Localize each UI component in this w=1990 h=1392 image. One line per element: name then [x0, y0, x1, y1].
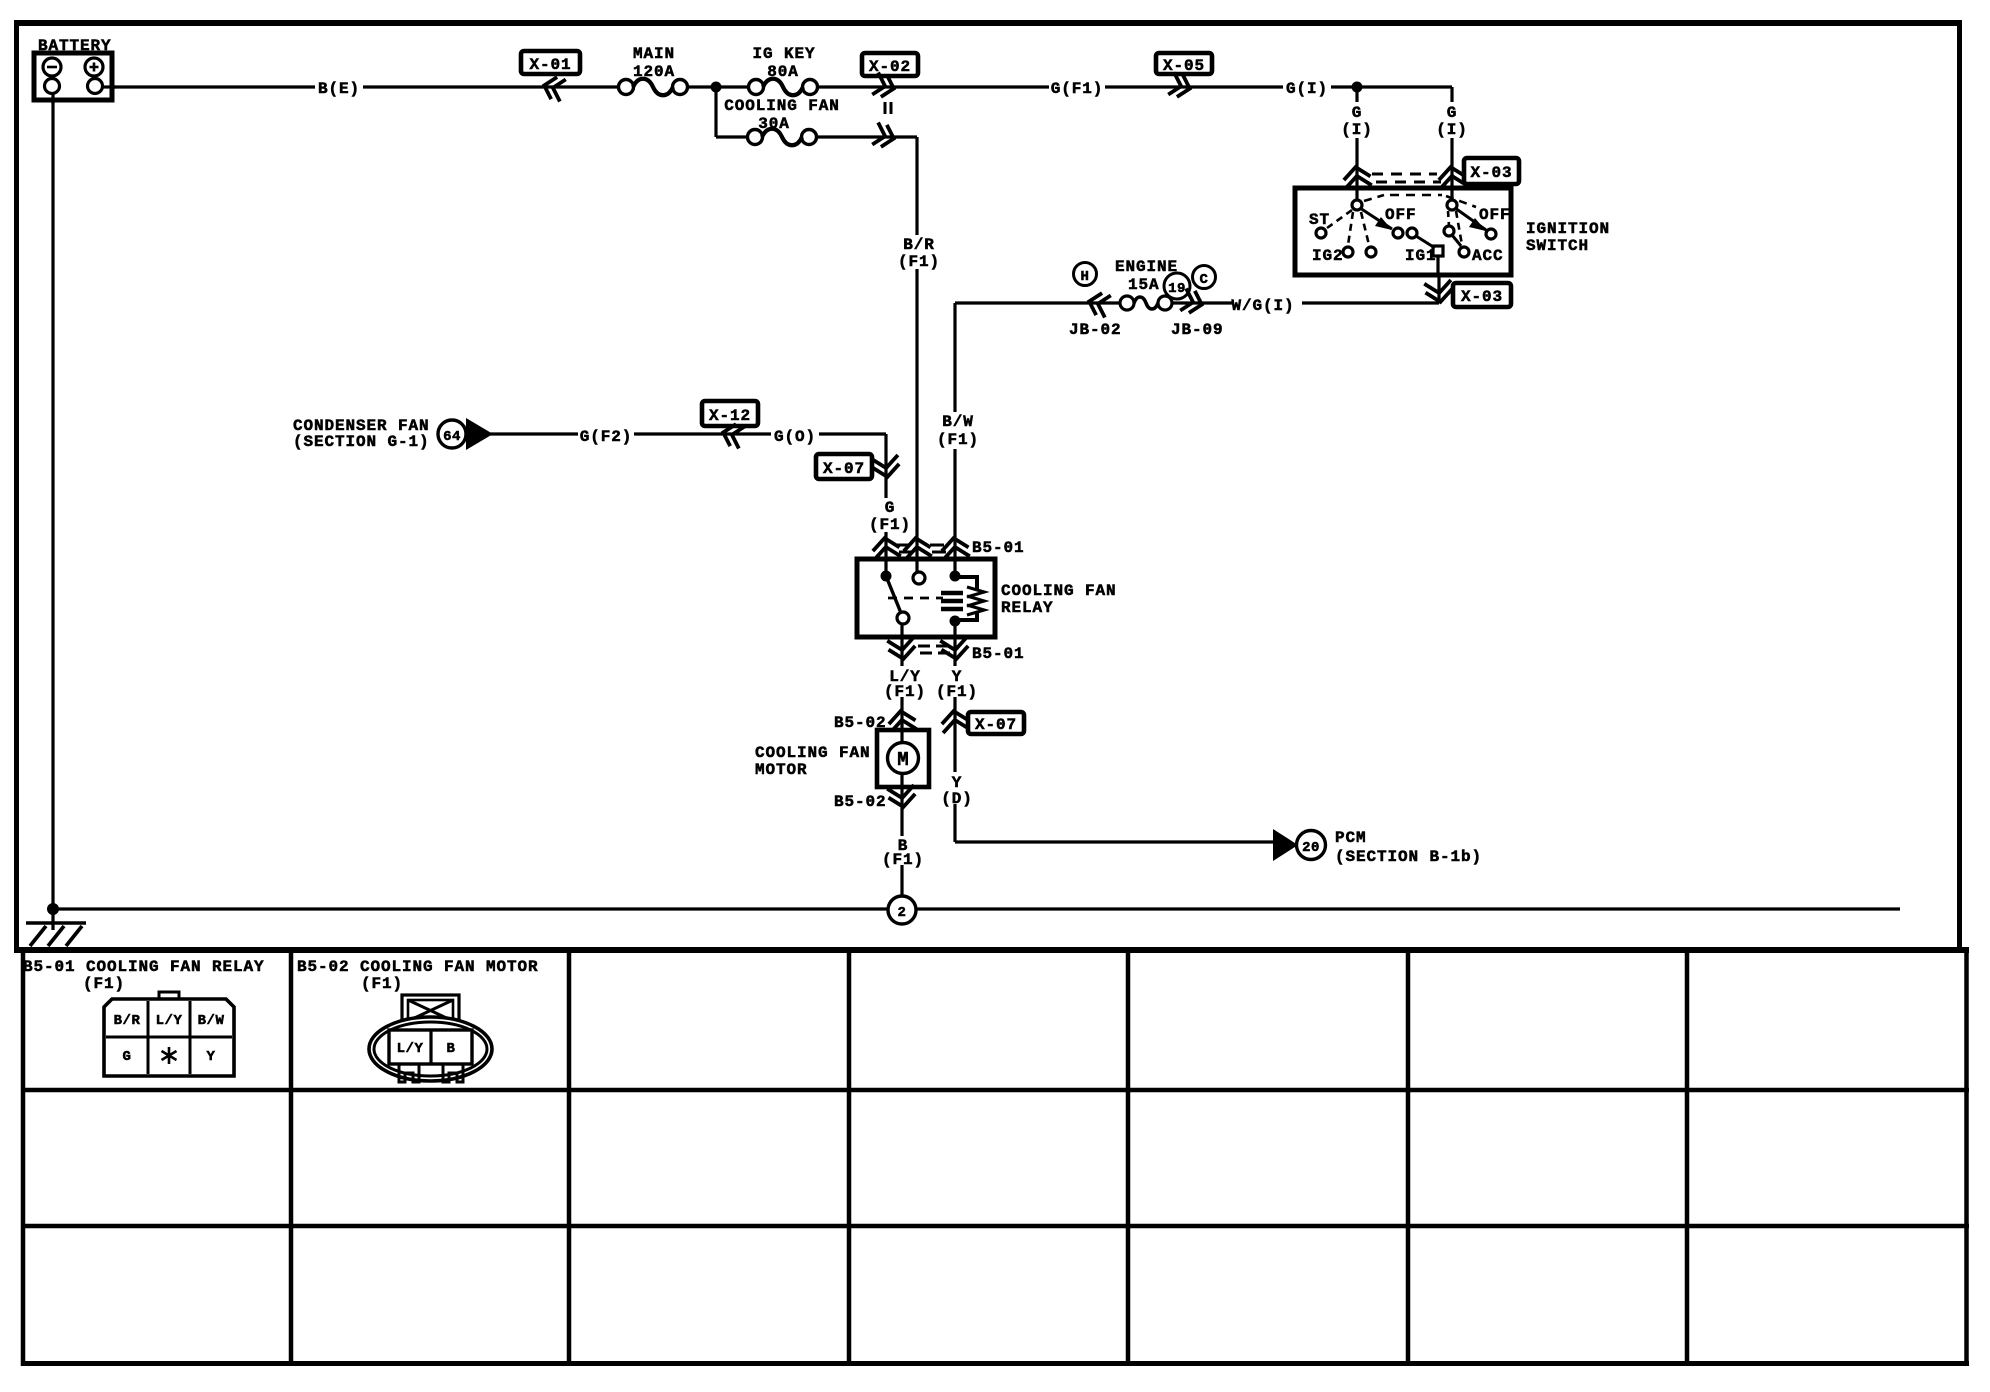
connector B5-02 top chevron: [834, 709, 915, 732]
svg-text:X-03: X-03: [1461, 288, 1503, 306]
svg-text:MAIN: MAIN: [633, 45, 675, 63]
wire label B(E): [315, 77, 363, 98]
wire B(E) battery to main fuse: [100, 85, 618, 88]
svg-text:B5-01: B5-01: [972, 539, 1025, 557]
svg-text:B: B: [447, 1041, 456, 1057]
svg-text:(F1): (F1): [898, 253, 940, 271]
contact ACC: [1459, 247, 1469, 257]
svg-text:G: G: [885, 499, 896, 517]
connector X-07 right chevron: [942, 709, 1024, 734]
svg-text:(F1): (F1): [361, 975, 403, 993]
right dashed fan: [1448, 211, 1449, 226]
svg-text:G(O): G(O): [774, 428, 816, 446]
wire label L/Y (F1): [884, 666, 926, 701]
connector JB-09 chevron: [1182, 290, 1205, 314]
svg-text:G(F1): G(F1): [1051, 80, 1104, 98]
svg-text:M: M: [897, 749, 908, 771]
wire label G(F2): [578, 425, 634, 446]
connector X-12: [702, 401, 758, 447]
svg-text:19: 19: [1168, 281, 1186, 297]
wire battery ground drop: [51, 93, 54, 909]
svg-text:IG1: IG1: [1405, 247, 1437, 265]
svg-text:OFF: OFF: [1479, 206, 1511, 224]
svg-text:B/W: B/W: [198, 1013, 225, 1029]
node junction dot at main fuse split: [711, 82, 722, 93]
right common contact: [1447, 200, 1457, 210]
wire X-02 to ignition, corner down at 1452: [818, 87, 1452, 188]
fuse ENGINE 15A: [1120, 296, 1172, 310]
svg-text:(F1): (F1): [83, 975, 125, 993]
table label B5-01 COOLING FAN RELAY (F1): [23, 958, 265, 993]
connector X-03 top (chevrons into ignition switch): [1344, 158, 1519, 188]
svg-text:15A: 15A: [1128, 276, 1160, 294]
wire cooling fan fuse branch: [716, 87, 917, 559]
svg-text:COOLING FAN: COOLING FAN: [755, 744, 871, 762]
svg-text:W/G(I): W/G(I): [1231, 297, 1294, 315]
connector X-01: [521, 51, 580, 100]
svg-text:20: 20: [1302, 840, 1320, 856]
svg-text:(SECTION G-1): (SECTION G-1): [293, 433, 430, 451]
wire label G (I) left ignition: [1341, 102, 1373, 139]
node junction dot G(I) split: [1352, 82, 1363, 93]
table label B5-02 COOLING FAN MOTOR (F1): [297, 958, 539, 993]
svg-text:B(E): B(E): [318, 80, 360, 98]
label COOLING FAN RELAY: [1001, 582, 1117, 617]
svg-text:X-03: X-03: [1470, 164, 1512, 182]
wire label G(I): [1283, 77, 1331, 98]
wire label G (I) right ignition: [1436, 102, 1468, 139]
svg-text:X-07: X-07: [823, 460, 865, 478]
svg-text:G: G: [1447, 104, 1458, 122]
left common contact: [1352, 200, 1362, 210]
connector X-07 left: [816, 454, 899, 479]
ground symbol: [26, 909, 86, 946]
svg-text:G(I): G(I): [1286, 80, 1328, 98]
svg-text:B/R: B/R: [114, 1013, 141, 1029]
frame border: [14, 20, 1962, 950]
svg-text:(F1): (F1): [936, 683, 978, 701]
connector B5-02 bottom chevron: [834, 786, 915, 811]
svg-text:MOTOR: MOTOR: [755, 761, 808, 779]
battery: [34, 37, 116, 104]
connector pinout B5-02 motor: [369, 995, 492, 1082]
circled H: [1074, 263, 1097, 286]
wire label Y (D): [940, 772, 974, 808]
svg-text:IG KEY: IG KEY: [752, 45, 815, 63]
svg-text:IGNITION: IGNITION: [1526, 220, 1610, 238]
wire left ignition vertical: [1355, 87, 1358, 188]
svg-text:COOLING FAN: COOLING FAN: [724, 97, 840, 115]
svg-text:(F1): (F1): [869, 516, 911, 534]
connector B5-01 bottom chevrons: [889, 638, 1025, 663]
svg-text:ST: ST: [1309, 211, 1330, 229]
arrow to PCM with circled 20: [1273, 829, 1482, 866]
svg-text:X-12: X-12: [709, 407, 751, 425]
connector X-03 bottom: [1426, 281, 1511, 307]
wire motor to ground: [900, 787, 903, 897]
wire label B (F1): [882, 836, 924, 869]
svg-text:X-02: X-02: [869, 58, 911, 76]
wire label G (F1): [869, 498, 911, 534]
wire label B/R (F1): [898, 235, 940, 271]
wire engine 15A run (IG1 to B/W drop): [955, 256, 1439, 559]
svg-text:(D): (D): [941, 790, 973, 808]
contact IG2 pair: [1343, 247, 1353, 257]
wire label B/W (F1): [937, 412, 979, 449]
fuse IG KEY 80A: [749, 45, 818, 95]
svg-text:2: 2: [898, 905, 907, 921]
connector X-02: [862, 53, 918, 148]
svg-text:PCM: PCM: [1335, 829, 1367, 847]
svg-text:L/Y: L/Y: [397, 1041, 424, 1057]
svg-text:SWITCH: SWITCH: [1526, 237, 1589, 255]
ignition switch: [1295, 188, 1511, 275]
svg-text:B5-01: B5-01: [972, 645, 1025, 663]
svg-text:(I): (I): [1436, 121, 1468, 139]
connector B5-01 top chevrons: [873, 536, 1025, 558]
svg-text:JB-02: JB-02: [1069, 321, 1122, 339]
node junction dot ground: [47, 903, 59, 915]
circled 19: [1164, 273, 1190, 299]
right mid contact: [1444, 226, 1454, 236]
wire relay Y output to PCM: [955, 637, 1273, 842]
svg-text:B5-02: B5-02: [834, 793, 887, 811]
circled C: [1193, 266, 1216, 289]
svg-text:64: 64: [443, 429, 461, 445]
wire label W/G(I): [1231, 294, 1302, 315]
node circled 64 with arrow: [438, 418, 493, 450]
svg-text:H: H: [1081, 269, 1090, 285]
svg-text:ACC: ACC: [1472, 247, 1504, 265]
label CONDENSER FAN (SECTION G-1): [293, 417, 430, 451]
svg-text:ENGINE: ENGINE: [1115, 258, 1178, 276]
node circled 2 on ground bus: [888, 896, 916, 924]
svg-text:OFF: OFF: [1385, 206, 1417, 224]
left dashed fan ST: [1327, 210, 1352, 228]
svg-text:JB-09: JB-09: [1171, 321, 1224, 339]
svg-text:RELAY: RELAY: [1001, 599, 1054, 617]
svg-text:COOLING FAN: COOLING FAN: [1001, 582, 1117, 600]
svg-text:IG2: IG2: [1312, 247, 1344, 265]
motor COOLING FAN MOTOR: [755, 730, 929, 787]
wire between fuses with junction: [688, 85, 748, 88]
middle contact to IG1: [1407, 228, 1417, 238]
relay COOLING FAN RELAY: [857, 559, 995, 637]
svg-text:G: G: [123, 1049, 132, 1065]
wire label G(O): [771, 425, 819, 446]
right OFF arm with arrow: [1455, 208, 1486, 230]
left dashed fan IG2: [1348, 212, 1353, 245]
svg-text:(I): (I): [1341, 121, 1373, 139]
fuse COOLING FAN 30A: [724, 97, 840, 145]
svg-text:G(F2): G(F2): [580, 428, 633, 446]
relay coil: [950, 571, 961, 582]
svg-text:Y: Y: [207, 1049, 216, 1065]
svg-text:(F1): (F1): [882, 851, 924, 869]
svg-text:X-07: X-07: [975, 716, 1017, 734]
IG1 output wire: [1436, 256, 1439, 275]
connector pinout B5-01 relay: [104, 992, 234, 1076]
svg-text:X-05: X-05: [1163, 57, 1205, 75]
svg-text:(F1): (F1): [937, 431, 979, 449]
label IGNITION SWITCH: [1526, 220, 1610, 255]
fuse MAIN 120A: [619, 45, 688, 95]
svg-text:(SECTION B-1b): (SECTION B-1b): [1335, 848, 1482, 866]
wire label Y (F1): [936, 666, 978, 701]
wire relay L/Y output to motor: [900, 637, 903, 730]
svg-text:C: C: [1200, 272, 1209, 288]
svg-text:B5-02 COOLING FAN MOTOR: B5-02 COOLING FAN MOTOR: [297, 958, 539, 976]
contact ST: [1316, 228, 1326, 238]
ground bus wire: [53, 907, 1900, 910]
wire condenser fan run: [490, 434, 886, 559]
svg-text:L/Y: L/Y: [156, 1013, 183, 1029]
label ENGINE 15A: [1115, 258, 1178, 294]
connector JB-02 chevron: [1087, 292, 1110, 316]
left OFF arm with arrow: [1360, 208, 1392, 229]
connector table grid: [14, 950, 1969, 1366]
connector X-05: [1156, 53, 1212, 98]
wire label G(F1): [1049, 77, 1105, 98]
svg-text:(F1): (F1): [884, 683, 926, 701]
svg-text:X-01: X-01: [529, 56, 571, 74]
svg-text:B/R: B/R: [903, 236, 935, 254]
mechanical coupling dashes: [1364, 195, 1384, 201]
svg-text:B/W: B/W: [942, 413, 974, 431]
svg-text:G: G: [1352, 104, 1363, 122]
svg-text:B5-01 COOLING FAN RELAY: B5-01 COOLING FAN RELAY: [23, 958, 265, 976]
